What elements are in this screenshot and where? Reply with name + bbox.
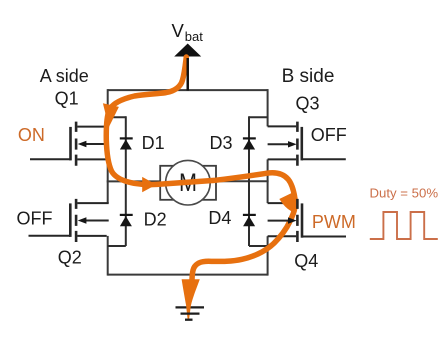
svg-text:bat: bat — [185, 29, 203, 44]
motor row right wire — [216, 180, 269, 182]
svg-text:V: V — [172, 20, 185, 41]
ground middle bar — [181, 312, 200, 314]
svg-text:D3: D3 — [210, 133, 233, 153]
right rail middle wire — [267, 159, 269, 203]
right rail lower wire — [267, 236, 269, 275]
Q4 source stub wire — [268, 235, 297, 237]
flow arrowhead into Q1 — [103, 103, 119, 127]
svg-text:B side: B side — [282, 66, 335, 87]
svg-text:ON: ON — [18, 125, 45, 145]
flow arrowhead into ground — [182, 279, 200, 318]
svg-text:D2: D2 — [144, 209, 167, 229]
bottom rail wire — [108, 274, 268, 276]
diode D2 — [108, 181, 133, 246]
PWM waveform — [370, 212, 438, 239]
motor box — [160, 166, 216, 200]
svg-text:OFF: OFF — [311, 125, 347, 145]
svg-text:Q4: Q4 — [294, 251, 318, 271]
diode D4 — [243, 181, 268, 246]
ground bottom bar — [185, 319, 193, 321]
ground top bar — [176, 306, 205, 308]
ground tap wire — [188, 283, 190, 307]
left rail upper wire — [107, 89, 109, 127]
svg-text:Duty = 50%: Duty = 50% — [370, 186, 439, 201]
motor row left wire — [107, 180, 161, 182]
Q4 drain stub wire — [268, 202, 297, 204]
svg-text:PWM: PWM — [312, 212, 356, 232]
Vbat arrow symbol — [174, 44, 201, 57]
orange current flow wire — [106, 57, 295, 280]
Vbat tap wire redraw — [186, 58, 188, 91]
svg-text:Q2: Q2 — [58, 248, 82, 268]
diode D3 — [243, 116, 268, 182]
diode D1 — [108, 116, 133, 182]
svg-text:OFF: OFF — [17, 209, 53, 229]
svg-text:Q1: Q1 — [55, 89, 79, 109]
left rail middle wire — [107, 159, 109, 203]
motor circle — [166, 160, 211, 205]
transistor Q2 — [29, 199, 109, 242]
left rail lower wire — [107, 236, 109, 276]
transistor Q4 — [268, 199, 346, 242]
svg-text:D4: D4 — [208, 208, 231, 228]
flow arrowhead into Q4 — [279, 192, 294, 213]
top rail wire — [108, 89, 268, 91]
svg-text:Q3: Q3 — [295, 93, 319, 113]
svg-text:A side: A side — [40, 66, 89, 86]
flow arrowhead into motor — [142, 177, 156, 192]
Vbat tap wire — [186, 56, 188, 91]
right rail upper wire — [267, 89, 269, 126]
transistor Q3 — [268, 122, 346, 166]
transistor Q1 — [30, 122, 109, 166]
svg-text:D1: D1 — [142, 133, 165, 153]
